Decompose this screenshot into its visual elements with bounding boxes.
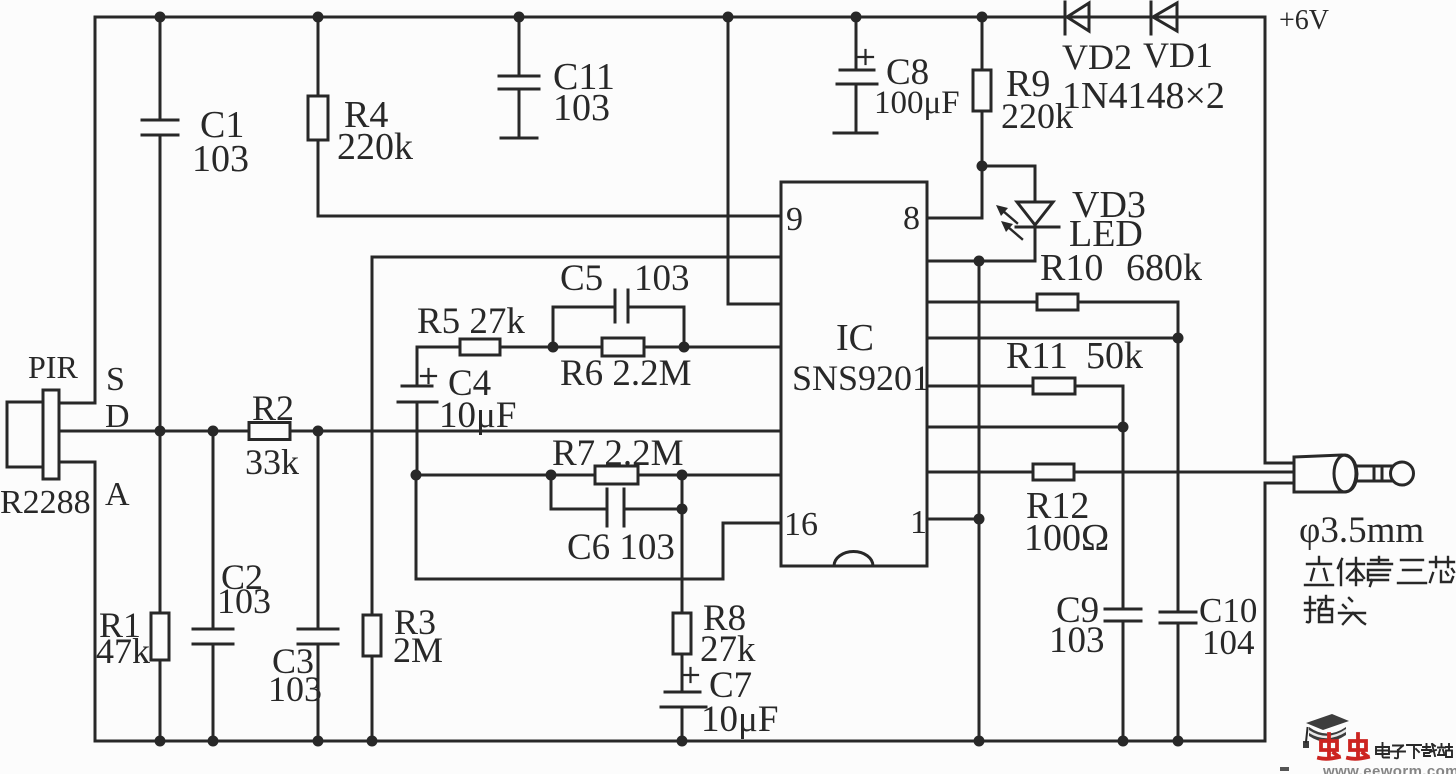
watermark graduation cap <box>1303 714 1349 748</box>
wire C9 column <box>1122 427 1125 609</box>
capacitor C7 polarized <box>665 691 700 694</box>
node pin8/LED junction <box>974 256 985 267</box>
diode VD2 <box>1064 2 1067 34</box>
node R9/LED junction <box>977 161 988 172</box>
svg-text:R5 27k: R5 27k <box>417 301 525 342</box>
resistor R12 <box>1033 464 1074 480</box>
svg-text:φ3.5mm: φ3.5mm <box>1299 510 1424 551</box>
svg-text:C5: C5 <box>560 258 603 299</box>
LED VD3 <box>1017 202 1053 225</box>
capacitor C3 <box>298 628 338 631</box>
wire right border upper <box>1264 17 1267 463</box>
wire pin16 path <box>723 522 781 525</box>
wire R12 row to plug <box>927 471 1033 474</box>
resistor R9 <box>973 70 991 111</box>
wire left border lower (A pin to ground) <box>59 461 95 464</box>
capacitor C10 <box>1160 611 1196 614</box>
capacitor C5 <box>614 290 617 322</box>
svg-text:47k: 47k <box>96 631 150 671</box>
svg-text:R11: R11 <box>1006 335 1068 377</box>
svg-text:+6V: +6V <box>1279 5 1329 36</box>
svg-text:PIR: PIR <box>28 349 78 385</box>
label Chinese plug (cha tou) <box>1305 596 1333 622</box>
resistor R2 <box>249 423 290 440</box>
svg-text:C6 103: C6 103 <box>567 527 675 568</box>
resistor R7 <box>595 466 638 484</box>
svg-text:27k: 27k <box>700 629 756 670</box>
svg-text:10μF: 10μF <box>701 699 778 740</box>
node D line junctions <box>155 426 166 437</box>
resistor R4 <box>308 96 328 140</box>
node R10/C10 junction <box>1173 333 1184 344</box>
svg-text:9: 9 <box>786 201 803 238</box>
wire C8 column <box>855 17 858 70</box>
wire D signal line <box>59 430 249 433</box>
svg-text:IC: IC <box>836 317 874 359</box>
watermark red chong chong <box>1319 734 1339 759</box>
capacitor C9 <box>1105 608 1141 611</box>
wire C3 column <box>317 431 320 629</box>
wire C5 loop <box>552 307 555 347</box>
svg-text:R2288: R2288 <box>0 484 91 521</box>
wire left border (S pin to +6V) <box>94 17 97 403</box>
LED arrows <box>996 205 1022 239</box>
svg-text:D: D <box>105 398 130 435</box>
node ground rail junctions <box>155 736 166 747</box>
node pin1 junction <box>974 514 985 525</box>
svg-text:A: A <box>105 476 130 513</box>
svg-text:220k: 220k <box>337 126 413 168</box>
wire C2 column <box>212 431 215 629</box>
svg-text:103: 103 <box>217 581 271 621</box>
3.5mm stereo plug <box>1294 455 1357 492</box>
svg-text:103: 103 <box>1049 620 1105 661</box>
svg-text:R6 2.2M: R6 2.2M <box>560 353 692 394</box>
wire C6 loop <box>550 475 553 509</box>
capacitor C4 polarized <box>402 385 432 388</box>
watermark Chinese site name dian zi xia zai zhan <box>1376 743 1389 758</box>
capacitor C11 <box>499 75 539 78</box>
capacitor C1 <box>142 119 178 122</box>
svg-text:100μF: 100μF <box>874 85 960 121</box>
wire R10 row <box>927 301 1037 304</box>
svg-text:103: 103 <box>634 258 690 299</box>
svg-text:VD2: VD2 <box>1062 37 1132 77</box>
svg-text:R10: R10 <box>1040 247 1103 289</box>
svg-text:103: 103 <box>268 669 322 709</box>
wire pin1/ground column <box>978 261 981 741</box>
stray mark bottom <box>1280 767 1289 771</box>
node R7/C6 junctions <box>411 470 422 481</box>
svg-text:16: 16 <box>784 506 818 543</box>
resistor R8 <box>673 613 691 654</box>
wire LED branch <box>982 165 1035 168</box>
wire R11 row <box>927 385 1033 388</box>
wire R5 row y347 <box>417 346 460 349</box>
svg-text:103: 103 <box>192 138 249 180</box>
wire R3 column / pin feed y257 <box>372 256 781 259</box>
capacitor C8 polarized <box>840 69 874 72</box>
resistor R6 <box>602 338 644 356</box>
svg-text:SNS9201: SNS9201 <box>792 358 930 398</box>
svg-text:2M: 2M <box>393 630 443 670</box>
resistor R3 <box>363 615 381 656</box>
svg-text:104: 104 <box>1202 623 1255 662</box>
svg-text:100Ω: 100Ω <box>1024 517 1109 559</box>
wire top rail to pin3 <box>727 17 730 304</box>
capacitor C6 <box>606 489 609 526</box>
wire C11 column <box>518 17 521 76</box>
wire ground bottom rail <box>95 740 1265 743</box>
svg-text:R7 2.2M: R7 2.2M <box>552 433 684 474</box>
node R11/C9 junction <box>1118 422 1129 433</box>
wire R9 column / pin8 <box>981 17 984 70</box>
svg-text:1: 1 <box>910 504 927 541</box>
node R5/R6 junctions <box>548 342 559 353</box>
svg-text:10μF: 10μF <box>439 395 516 436</box>
svg-text:680k: 680k <box>1126 247 1202 289</box>
node top rail junctions <box>155 12 166 23</box>
wire R4 column / pin9 feed <box>317 17 320 96</box>
label Chinese 3.5mm stereo 3-core (li ti sheng san xin) <box>1305 557 1333 585</box>
wire R8/C7 column <box>681 475 684 613</box>
svg-text:www.eeworm.com: www.eeworm.com <box>1322 763 1456 774</box>
wire C1/R1 column <box>159 17 162 120</box>
wire +6V top rail <box>95 16 1265 19</box>
resistor R10 <box>1037 294 1078 310</box>
wire C4 column <box>416 347 419 386</box>
svg-text:8: 8 <box>903 200 920 237</box>
op-amp IC SNS9201 <box>781 182 927 566</box>
diode VD1 <box>1150 2 1153 34</box>
resistor R5 <box>460 339 500 355</box>
capacitor C2 <box>193 628 233 631</box>
resistor R11 <box>1033 378 1075 394</box>
svg-text:1N4148×2: 1N4148×2 <box>1062 75 1225 117</box>
wire right border lower <box>1265 482 1296 485</box>
PIR sensor R2288 body <box>7 402 43 467</box>
wire C10 column <box>1177 338 1180 612</box>
wire R7 row y475 <box>417 474 595 477</box>
svg-text:50k: 50k <box>1086 335 1143 377</box>
svg-text:S: S <box>106 361 125 398</box>
svg-text:R2: R2 <box>252 388 294 428</box>
svg-text:VD1: VD1 <box>1143 35 1213 75</box>
resistor R1 <box>151 613 169 660</box>
svg-text:33k: 33k <box>245 442 299 482</box>
svg-text:103: 103 <box>553 87 610 129</box>
